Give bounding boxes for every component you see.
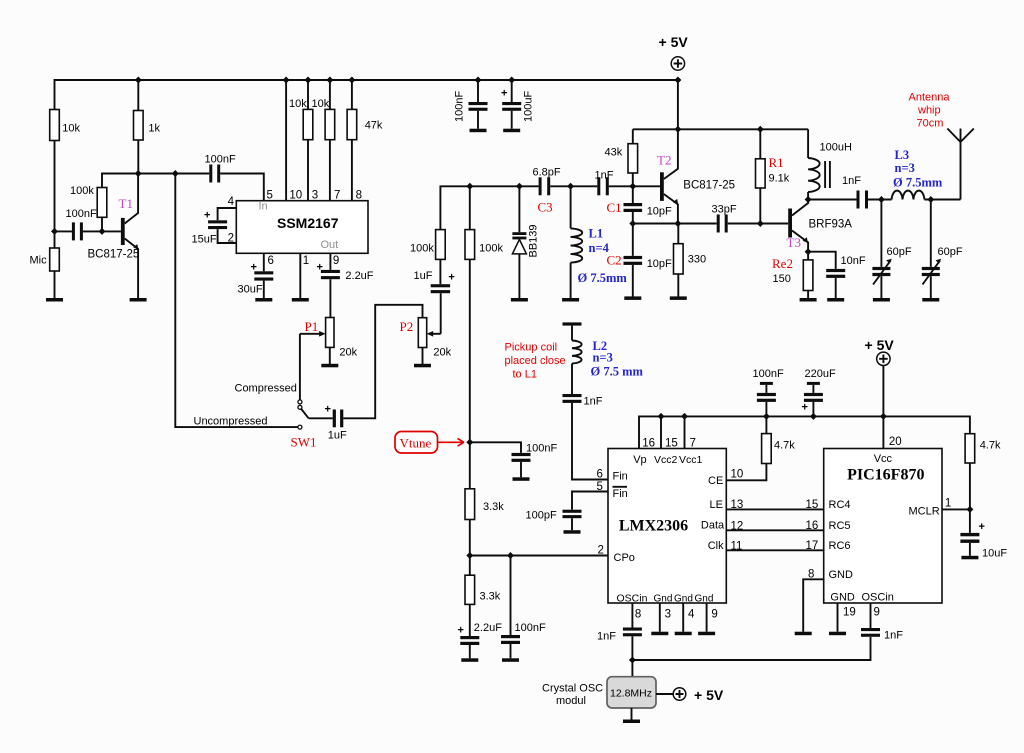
node 60pF-1 <box>878 196 885 203</box>
resistor 100k (right) <box>465 230 475 260</box>
trimmer capacitor 60pF (1) <box>880 200 882 267</box>
svg-text:1uF: 1uF <box>328 430 347 442</box>
wire crystal line to PIC 1nF <box>632 637 870 660</box>
svg-text:OSCin: OSCin <box>862 592 894 604</box>
ground (PIC pin 8) <box>795 632 812 636</box>
svg-text:SW1: SW1 <box>291 435 317 450</box>
svg-text:R1: R1 <box>769 155 784 170</box>
svg-text:100uH: 100uH <box>820 142 852 154</box>
svg-text:Ø 7.5mm: Ø 7.5mm <box>578 271 628 285</box>
resistor 330 <box>674 244 684 274</box>
wire pin 7 Vcc1 <box>684 416 686 448</box>
svg-text:3.3k: 3.3k <box>480 591 501 603</box>
node 60pF-2 <box>927 196 934 203</box>
varactor BB139 <box>516 183 523 190</box>
IC U1 SSM2167 box <box>236 201 368 254</box>
svg-text:Re2: Re2 <box>772 256 793 271</box>
svg-text:+: + <box>204 210 210 222</box>
wire LMX OSCin pin 8 <box>631 603 633 628</box>
svg-text:BRF93A: BRF93A <box>809 219 853 231</box>
resistor 10k (pin 7) <box>329 80 331 109</box>
svg-text:33pF: 33pF <box>712 204 737 216</box>
transistor T3 BRF93A <box>788 209 792 238</box>
svg-text:Pickup coil: Pickup coil <box>505 342 558 354</box>
svg-text:1nF: 1nF <box>884 630 903 642</box>
resistor 3.3k (shunt leg) <box>465 575 475 604</box>
capacitor 1nF (LMX OSCin) <box>623 628 642 631</box>
svg-text:Ø 7.5 mm: Ø 7.5 mm <box>591 365 644 379</box>
svg-text:100k: 100k <box>410 242 434 254</box>
ground (P2) <box>414 364 431 368</box>
power +5V symbol (PIC) <box>877 352 890 365</box>
node T2 base <box>629 183 636 190</box>
capacitor 1nF (Fin coupling) <box>563 394 582 397</box>
capacitor 33pF <box>717 215 720 233</box>
node MCLR <box>966 506 973 513</box>
svg-text:330: 330 <box>688 254 706 266</box>
ground (Re2) <box>800 298 817 302</box>
resistor 100k (T1 feedback) <box>97 188 107 218</box>
svg-text:8: 8 <box>635 609 641 621</box>
wire 1nF to base node <box>609 185 660 187</box>
svg-text:+: + <box>325 404 331 416</box>
wire L3 to antenna <box>924 199 960 201</box>
wire switch pole to 1uF <box>309 417 333 419</box>
node T1 collector <box>135 170 142 177</box>
ground (PIC pin 19) <box>829 632 846 636</box>
wire cap to base node <box>83 230 121 232</box>
ground (60pF-1) <box>873 298 890 302</box>
svg-text:10uF: 10uF <box>982 548 1007 560</box>
node collector-line / uncompressed branch <box>172 170 179 177</box>
svg-text:15: 15 <box>665 438 678 450</box>
svg-text:20: 20 <box>889 436 902 448</box>
capacitor 30uF <box>254 271 273 274</box>
svg-text:1nF: 1nF <box>595 169 614 181</box>
svg-text:MCLR: MCLR <box>909 506 940 518</box>
capacitor 1uF (audio to P2) <box>333 410 336 428</box>
svg-text:Data: Data <box>701 520 725 532</box>
ground (BB139) <box>511 298 528 302</box>
potentiometer P1 20k <box>326 318 334 348</box>
svg-text:Fin: Fin <box>613 471 628 483</box>
transistor T1 BC817-25 <box>121 218 125 245</box>
wire 1uF to P2 top <box>343 305 422 419</box>
svg-text:5: 5 <box>267 189 273 201</box>
svg-text:P1: P1 <box>305 319 319 334</box>
svg-text:70cm: 70cm <box>917 118 944 130</box>
svg-text:+: + <box>317 262 323 274</box>
capacitor 100nF (CPo shunt) <box>510 556 512 636</box>
svg-text:20k: 20k <box>433 347 451 359</box>
pin 10 wire to rail <box>285 80 287 201</box>
svg-text:2.2uF: 2.2uF <box>345 270 373 282</box>
svg-text:100nF: 100nF <box>454 91 466 122</box>
svg-text:100nF: 100nF <box>66 208 97 220</box>
svg-text:RC5: RC5 <box>829 520 851 532</box>
capacitor 1nF output coupling <box>857 191 860 209</box>
capacitor C1 10pF <box>624 203 643 206</box>
node L1 <box>567 183 574 190</box>
svg-text:n=3: n=3 <box>895 161 915 175</box>
resistor R1 9.1k <box>756 159 766 188</box>
node rail/1k <box>135 77 142 84</box>
wire LMX Gnd pin 4 <box>682 603 684 632</box>
svg-text:Antenna: Antenna <box>909 92 951 104</box>
node +5V drop <box>674 126 681 133</box>
power +5V symbol (crystal) <box>656 693 673 695</box>
svg-text:1nF: 1nF <box>842 175 861 187</box>
svg-text:Gnd: Gnd <box>654 594 673 605</box>
wire 1k top to rail <box>137 80 139 111</box>
node rail/+5V <box>674 77 681 84</box>
capacitor 220uF (PIC decoupling) <box>807 382 820 385</box>
svg-text:47k: 47k <box>365 120 383 132</box>
svg-text:10nF: 10nF <box>841 255 866 267</box>
capacitor 1nF osc coupling <box>597 177 600 195</box>
pin 9 wire <box>329 253 331 270</box>
transistor T2 BC817-25 <box>660 172 664 201</box>
wire emitter line y223 <box>633 223 717 225</box>
wire PIC OSCin 9 <box>870 603 872 628</box>
wire PIC GND 19 <box>837 603 839 632</box>
svg-text:3: 3 <box>665 609 671 621</box>
svg-text:Vcc1: Vcc1 <box>679 454 703 466</box>
ground (100nF CPo) <box>502 658 519 662</box>
wire collector node line <box>102 174 175 188</box>
wire LE to RC4 <box>726 508 823 510</box>
svg-text:T2: T2 <box>657 153 671 168</box>
svg-text:8: 8 <box>356 189 362 201</box>
svg-text:LMX2306: LMX2306 <box>619 518 688 535</box>
svg-text:Crystal OSC: Crystal OSC <box>542 683 603 695</box>
wire crystal stub <box>631 660 633 677</box>
resistor 3.3k (loop filter series) <box>465 489 475 520</box>
svg-text:Gnd: Gnd <box>695 594 714 605</box>
wire +5V vertical <box>677 80 679 129</box>
svg-text:BC817-25: BC817-25 <box>88 249 140 261</box>
ground (pin 1) <box>292 298 309 302</box>
svg-text:20k: 20k <box>339 347 357 359</box>
capacitor 1nF (PIC OSCin) <box>861 628 880 631</box>
potentiometer P2 20k <box>418 318 426 348</box>
svg-text:2.2uF: 2.2uF <box>474 622 502 634</box>
antenna whip <box>947 129 973 200</box>
svg-text:150: 150 <box>773 273 791 285</box>
wire 33pF to R1/T3 base <box>728 223 789 225</box>
node T3 collector <box>805 196 812 203</box>
ground (pin 3) <box>651 632 668 636</box>
wire collector rail y129 <box>633 128 808 130</box>
svg-text:Vcc2: Vcc2 <box>654 454 678 466</box>
svg-text:L3: L3 <box>895 148 910 162</box>
node T3 emitter <box>805 248 812 255</box>
capacitor 100nF input coupling <box>55 230 72 232</box>
svg-text:100nF: 100nF <box>526 443 557 455</box>
ground (100nF Vtune) <box>513 477 530 481</box>
ground (crystal) <box>623 720 640 724</box>
wire P2 bottom to ground <box>422 348 424 365</box>
crystal oscillator module 12.8MHz <box>607 677 656 708</box>
microphone Mic <box>54 231 56 248</box>
svg-text:C1: C1 <box>607 200 622 215</box>
svg-text:4: 4 <box>688 609 695 621</box>
svg-text:LE: LE <box>710 499 723 511</box>
resistor 4.7k (CE pullup) <box>726 464 766 481</box>
capacitor 100pF (Fin-bar) <box>572 492 608 510</box>
svg-text:+ 5V: + 5V <box>865 337 895 353</box>
resistor 10k (mic bias) <box>50 110 60 141</box>
svg-text:In: In <box>259 201 268 213</box>
wire uncompressed throw to T1 line <box>175 174 298 428</box>
pin 6 wire <box>263 253 265 271</box>
IC U3 PIC16F870 box <box>824 449 942 604</box>
pin 4 wire <box>218 208 237 220</box>
pin 2 wire <box>218 229 237 243</box>
svg-text:whip: whip <box>917 105 941 117</box>
capacitor 100nF (Vtune) <box>470 442 521 453</box>
svg-text:7: 7 <box>690 438 696 450</box>
svg-text:+: + <box>448 272 454 284</box>
inductor L1 n=4 <box>570 186 572 228</box>
svg-text:to L1: to L1 <box>513 369 537 381</box>
wire pin 15 Vcc2 <box>660 416 662 448</box>
capacitor 100nF (PIC decoupling) <box>760 382 773 385</box>
svg-text:4.7k: 4.7k <box>980 440 1001 452</box>
svg-text:16: 16 <box>806 520 819 532</box>
svg-text:10pF: 10pF <box>647 258 672 270</box>
svg-text:Vp: Vp <box>633 454 646 466</box>
wire C3 to L1 node <box>550 185 597 187</box>
svg-text:Gnd: Gnd <box>674 594 693 605</box>
svg-text:+: + <box>979 521 985 533</box>
svg-text:10pF: 10pF <box>647 206 672 218</box>
ground (T1 emitter) <box>130 298 147 302</box>
ground (30uF) <box>255 298 272 302</box>
svg-text:30uF: 30uF <box>238 284 263 296</box>
capacitor 100uF decoupling (top) <box>511 80 513 102</box>
capacitor C2 10pF <box>632 224 634 256</box>
svg-text:Out: Out <box>321 239 339 251</box>
svg-text:5: 5 <box>597 481 603 493</box>
svg-text:+: + <box>501 88 507 100</box>
wire P2 wiper up to 1uF <box>440 293 442 334</box>
wire P1 wiper down to switch <box>299 334 301 400</box>
svg-text:n=3: n=3 <box>593 351 613 365</box>
capacitor 100nF SSM input <box>209 165 212 183</box>
capacitor C3 6.8pF <box>539 177 542 195</box>
svg-text:1uF: 1uF <box>414 270 433 282</box>
node 100nF shunt <box>507 552 514 559</box>
trimmer capacitor 60pF (2) <box>930 200 932 267</box>
svg-text:9: 9 <box>711 609 717 621</box>
svg-text:modul: modul <box>556 695 586 707</box>
ground (330) <box>670 296 687 300</box>
resistor 43k <box>628 144 638 173</box>
wire 100k down to Vtune node <box>469 259 471 442</box>
wire Data to RC5 <box>726 529 823 531</box>
wire to SSM input cap <box>175 173 209 175</box>
resistor 47k (pin 8) <box>351 80 353 109</box>
svg-text:10: 10 <box>289 189 302 201</box>
svg-text:9: 9 <box>333 255 339 267</box>
node 100k/varactor line <box>466 183 473 190</box>
capacitor 15uF <box>208 220 227 223</box>
ground (pin 4) <box>675 632 692 636</box>
svg-text:60pF: 60pF <box>887 246 912 258</box>
svg-text:BC817-25: BC817-25 <box>683 180 735 192</box>
wire crystal to ground <box>631 708 633 720</box>
svg-text:CPo: CPo <box>614 552 635 564</box>
switch SW1 contacts <box>298 400 302 404</box>
svg-text:1k: 1k <box>148 123 160 135</box>
svg-text:2: 2 <box>228 233 234 245</box>
svg-text:+: + <box>458 625 464 637</box>
svg-text:Vcc: Vcc <box>874 453 893 465</box>
svg-text:100nF: 100nF <box>205 153 236 165</box>
arrow Vtune <box>438 439 465 447</box>
svg-text:220uF: 220uF <box>805 368 836 380</box>
inductor L3 n=3 <box>892 191 925 200</box>
svg-text:1nF: 1nF <box>597 631 616 643</box>
svg-text:L1: L1 <box>589 227 604 241</box>
ground (mic) <box>46 298 63 302</box>
svg-text:C2: C2 <box>607 253 622 268</box>
svg-text:6.8pF: 6.8pF <box>533 167 561 179</box>
svg-text:60pF: 60pF <box>938 246 963 258</box>
wire 1nF to Fin pin 6 <box>572 403 608 480</box>
pin 1 wire to ground <box>299 253 301 298</box>
svg-text:15uF: 15uF <box>192 234 217 246</box>
svg-text:100k: 100k <box>70 185 94 197</box>
label Vtune <box>395 432 438 454</box>
inductor L2 pickup coil <box>571 326 573 341</box>
svg-text:+: + <box>802 402 808 414</box>
svg-text:1: 1 <box>945 498 951 510</box>
wire 1nF to L3 <box>868 199 892 201</box>
capacitor 1uF (varactor node) <box>431 284 450 287</box>
inductor 100uH choke <box>807 129 809 158</box>
svg-text:12.8MHz: 12.8MHz <box>610 688 652 700</box>
svg-text:Compressed: Compressed <box>235 383 297 395</box>
svg-text:4: 4 <box>228 196 235 208</box>
svg-text:6: 6 <box>597 469 603 481</box>
wire top supply rail <box>55 80 678 110</box>
ground (10uF) <box>961 556 978 560</box>
svg-text:100pF: 100pF <box>526 510 557 522</box>
svg-text:7: 7 <box>334 189 340 201</box>
node T1 base <box>99 228 106 235</box>
wire 1k to collector node <box>137 140 139 174</box>
svg-text:Mic: Mic <box>30 255 48 267</box>
wire PIC GND 8 <box>803 579 824 631</box>
resistor 4.7k (MCLR pullup) <box>965 434 975 463</box>
wire P1 bottom to ground <box>329 347 331 364</box>
svg-text:GND: GND <box>829 569 854 581</box>
svg-text:16: 16 <box>642 438 655 450</box>
ground (pin 9) <box>698 632 715 636</box>
svg-text:C3: C3 <box>538 200 553 215</box>
svg-text:+ 5V: + 5V <box>694 687 724 703</box>
svg-text:RC6: RC6 <box>829 540 851 552</box>
capacitor 2.2uF output <box>321 270 340 273</box>
svg-text:100k: 100k <box>479 242 503 254</box>
ground (60pF-2) <box>922 298 939 302</box>
capacitor 2.2uF (shunt leg) <box>460 636 479 639</box>
node CPo/3.3k <box>466 552 473 559</box>
wire cap to pin 5 <box>220 174 264 201</box>
capacitor 10uF (MCLR) <box>969 509 971 533</box>
wire 2.2uF to P1 <box>329 279 331 317</box>
svg-text:3.3k: 3.3k <box>483 501 504 513</box>
svg-text:100nF: 100nF <box>515 622 546 634</box>
wire Clk to RC6 <box>726 549 823 551</box>
wire varactor node line <box>440 186 538 229</box>
wire LMX Gnd pin 3 <box>659 603 661 632</box>
ground (C2) <box>624 296 641 300</box>
svg-text:T3: T3 <box>787 235 801 250</box>
svg-text:2: 2 <box>598 545 604 557</box>
svg-text:10k: 10k <box>312 98 330 110</box>
ground (10nF) <box>827 298 844 302</box>
svg-text:10k: 10k <box>62 123 80 135</box>
svg-text:3: 3 <box>312 189 318 201</box>
svg-text:SSM2167: SSM2167 <box>277 215 339 231</box>
power +5V symbol (top) <box>671 57 684 70</box>
svg-text:15: 15 <box>806 499 819 511</box>
svg-text:CE: CE <box>708 475 723 487</box>
node mic/cap junction <box>51 228 58 235</box>
svg-text:4.7k: 4.7k <box>774 440 795 452</box>
svg-text:43k: 43k <box>605 147 623 159</box>
resistor 10k (pin 3) <box>307 80 309 109</box>
svg-text:placed close: placed close <box>505 355 566 367</box>
svg-text:OSCin: OSCin <box>617 593 648 605</box>
svg-text:BB139: BB139 <box>528 224 540 257</box>
svg-text:Uncompressed: Uncompressed <box>194 416 268 428</box>
svg-text:T1: T1 <box>119 196 133 211</box>
ground (100pF) <box>564 530 581 534</box>
resistor Re2 150 <box>803 260 813 291</box>
resistor 1k (T1 collector) <box>134 111 144 141</box>
wire LMX Gnd pin 9 <box>706 603 708 632</box>
resistor 100k (left) <box>436 230 446 260</box>
wire mic to ground <box>54 271 56 299</box>
wire CPo line <box>470 555 608 557</box>
IC U2 LMX2306 box <box>608 449 726 604</box>
svg-text:1: 1 <box>303 255 309 267</box>
svg-text:PIC16F870: PIC16F870 <box>847 467 924 484</box>
svg-text:6: 6 <box>268 255 274 267</box>
svg-text:P2: P2 <box>400 319 414 334</box>
wire 10k to mic node <box>54 141 56 232</box>
svg-text:100uF: 100uF <box>523 91 535 122</box>
ground (2.2uF) <box>461 658 478 662</box>
svg-text:1nF: 1nF <box>584 396 603 408</box>
wire Vcc rail (LMX/PIC) <box>639 416 970 448</box>
svg-text:+: + <box>251 262 257 274</box>
svg-text:10k: 10k <box>289 98 307 110</box>
node crystal junction <box>629 657 636 664</box>
svg-text:RC4: RC4 <box>829 499 851 511</box>
ground (P1) <box>321 364 338 368</box>
svg-text:100nF: 100nF <box>753 368 784 380</box>
svg-text:Fin: Fin <box>613 488 628 500</box>
pickup coil L2 open end bar <box>563 322 582 325</box>
svg-text:9.1k: 9.1k <box>769 173 790 185</box>
wire MCLR node <box>942 508 970 510</box>
svg-text:GND: GND <box>830 592 855 604</box>
